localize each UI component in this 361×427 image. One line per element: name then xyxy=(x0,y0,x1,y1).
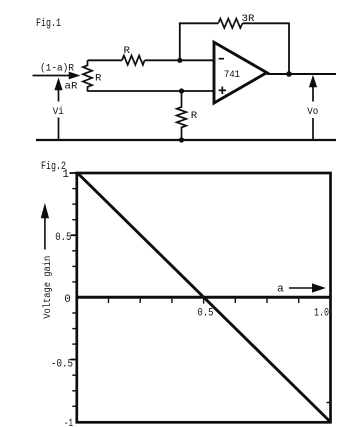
wire: bottom common rail xyxy=(36,139,336,141)
y axis right edge small tick xyxy=(327,402,331,404)
resistor R (series, horizontal) xyxy=(122,56,145,65)
svg-text:R: R xyxy=(191,110,198,122)
diagonal gain line from (0,1) to (1,-1) xyxy=(78,174,331,423)
svg-text:1: 1 xyxy=(62,169,69,181)
svg-text:-1: -1 xyxy=(64,418,73,427)
x axis minor ticks xyxy=(109,299,299,304)
wire: feedback top left segment xyxy=(179,22,218,24)
wire: feedback left vertical xyxy=(179,23,181,60)
svg-text:aR: aR xyxy=(65,81,79,93)
node: grounding resistor to rail junction dot xyxy=(179,137,184,142)
source arrow Vi xyxy=(55,79,62,141)
svg-text:0.5: 0.5 xyxy=(198,307,214,319)
svg-text:741: 741 xyxy=(224,69,240,81)
x axis (a) thick line at gain 0 xyxy=(76,296,331,299)
wire: series resistor to inverting input xyxy=(145,59,214,61)
op-amp U1 741 xyxy=(214,42,267,103)
wire: op-amp output xyxy=(267,73,336,75)
resistor R to ground rail (vertical) xyxy=(177,91,187,140)
svg-text:-0.5: -0.5 xyxy=(51,359,73,371)
svg-text:Voltage gain: Voltage gain xyxy=(42,256,54,319)
arrow Vo xyxy=(309,76,316,140)
svg-text:Fig.1: Fig.1 xyxy=(36,18,61,30)
y axis name arrow (up) xyxy=(41,204,49,250)
svg-text:0.5: 0.5 xyxy=(55,232,71,244)
svg-text:0: 0 xyxy=(64,294,71,306)
svg-text:Vo: Vo xyxy=(307,106,318,118)
svg-text:R: R xyxy=(95,73,102,85)
svg-text:Vi: Vi xyxy=(53,106,64,118)
wire: pot top to series resistor xyxy=(88,59,123,61)
y axis major ticks xyxy=(70,173,77,360)
node: non-inverting input junction dot xyxy=(179,88,184,93)
node: inverting input junction dot xyxy=(177,58,182,63)
wire: pot bottom to non-inverting input xyxy=(88,90,214,92)
svg-text:R: R xyxy=(124,45,131,57)
potentiometer R (vertical zigzag) xyxy=(83,60,92,91)
graph frame box xyxy=(77,173,331,422)
wire: feedback top right segment xyxy=(243,22,290,24)
wire: feedback right vertical to output xyxy=(288,23,290,74)
svg-text:a: a xyxy=(277,284,284,296)
svg-text:1.0: 1.0 xyxy=(314,307,329,319)
resistor 3R (feedback) xyxy=(218,19,242,28)
wire: input to wiper with arrow xyxy=(33,72,80,79)
svg-text:(1-a)R: (1-a)R xyxy=(40,63,75,75)
node: output junction dot xyxy=(286,71,292,77)
y axis minor ticks xyxy=(72,189,76,407)
